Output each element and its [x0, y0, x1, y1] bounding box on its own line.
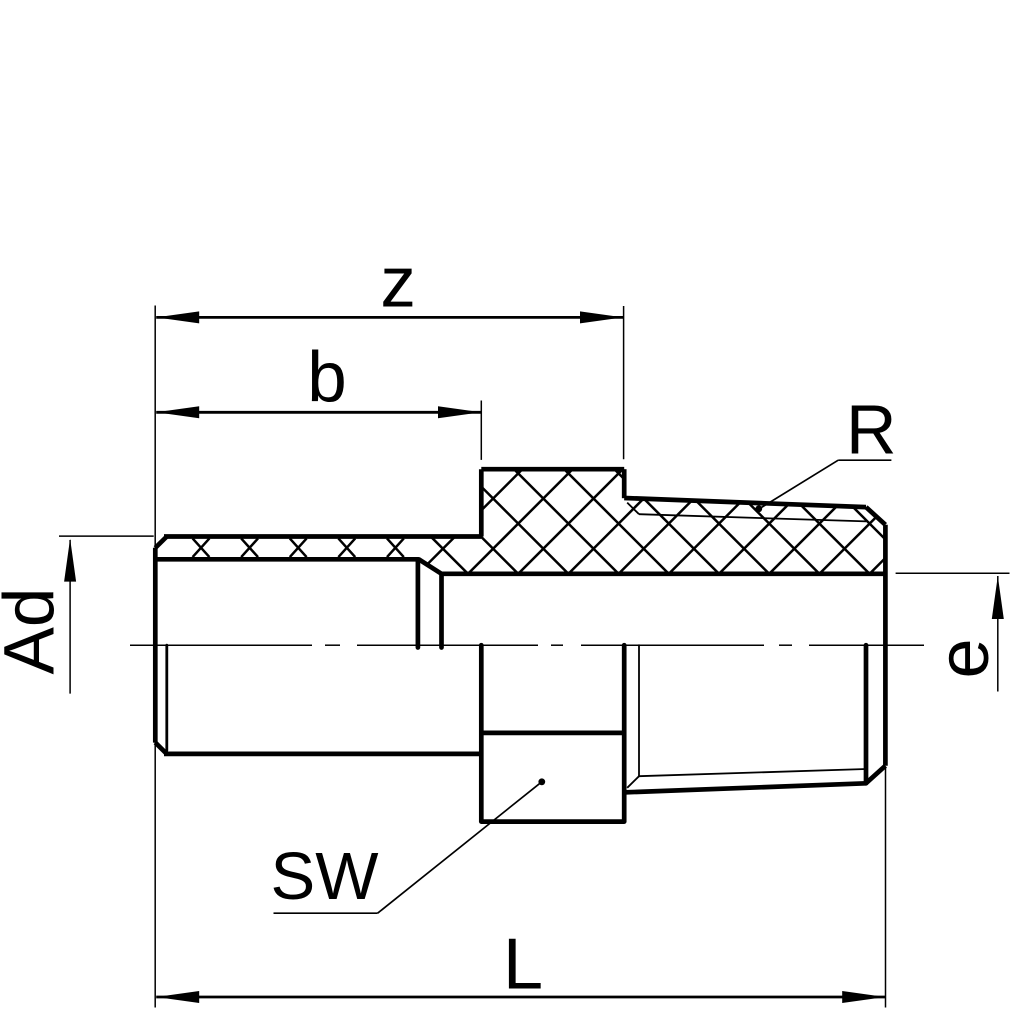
- thread start chamfer top: [627, 503, 639, 515]
- thread crest top: [624, 498, 866, 507]
- thread start edge bottom: [638, 645, 640, 776]
- chamfer edge line bottom: [165, 645, 168, 750]
- extension line L right: [885, 767, 887, 1008]
- R leader diagonal: [761, 460, 839, 508]
- left chamfer top: [155, 537, 167, 548]
- hatch lattice on body section: [271, 440, 1003, 620]
- bore face 2: [439, 574, 444, 648]
- hex top: [481, 467, 624, 472]
- thread root top: [639, 514, 866, 521]
- svg-text:R: R: [846, 390, 897, 468]
- hex left edge top: [479, 469, 484, 536]
- dimension line z: [156, 316, 623, 319]
- spigot bore line: [158, 557, 418, 562]
- arrow L right: [842, 991, 885, 1003]
- left chamfer bottom: [155, 743, 167, 754]
- extension line left lower: [154, 742, 156, 1008]
- end chamfer bottom: [866, 766, 885, 784]
- SW leader dot: [538, 778, 545, 785]
- bore step chamfer: [418, 559, 441, 574]
- svg-text:b: b: [307, 339, 347, 418]
- arrow z left: [156, 311, 199, 323]
- hex corner line: [481, 731, 624, 736]
- extension line z right: [623, 306, 625, 459]
- arrow z right: [580, 311, 623, 323]
- SW leader horizontal: [274, 912, 378, 914]
- left end face: [153, 548, 158, 743]
- hex left edge bottom: [479, 645, 484, 821]
- extension line left upper: [154, 306, 156, 549]
- arrow b right: [438, 406, 481, 418]
- e reference line: [896, 572, 1010, 574]
- centerline axis: [130, 644, 924, 646]
- svg-text:Ad: Ad: [0, 588, 70, 675]
- extension line b right: [480, 401, 482, 460]
- svg-text:e: e: [924, 638, 1004, 678]
- hatch crosses on spigot wall section: [193, 538, 404, 557]
- R leader dot: [755, 505, 762, 512]
- thread start chamfer bottom: [627, 776, 639, 788]
- SW leader diagonal: [378, 782, 542, 913]
- hex-taper step: [622, 469, 627, 498]
- Ad reference line: [59, 535, 154, 537]
- dimension line b: [156, 411, 481, 414]
- main bore line: [442, 571, 886, 576]
- svg-text:L: L: [503, 925, 543, 1005]
- R leader horizontal: [838, 459, 891, 461]
- arrow b left: [156, 406, 199, 418]
- hex right edge bottom: [622, 645, 627, 821]
- spigot outer bottom: [164, 752, 481, 757]
- spigot outer top: [164, 534, 481, 539]
- end chamfer top: [866, 507, 885, 525]
- dimension line L: [156, 996, 885, 999]
- svg-text:z: z: [380, 243, 416, 322]
- arrow Ad up: [64, 539, 76, 582]
- thread crest bottom: [624, 783, 866, 792]
- arrow L left: [156, 991, 199, 1003]
- Ad arrow shaft: [69, 540, 71, 694]
- e arrow shaft: [997, 576, 999, 692]
- right end face: [883, 525, 888, 766]
- thread end edge bottom: [864, 645, 869, 783]
- svg-text:SW: SW: [271, 839, 380, 914]
- thread root bottom: [639, 769, 866, 776]
- hex bottom: [481, 819, 624, 824]
- bore step face: [416, 559, 421, 647]
- arrow e up: [992, 576, 1004, 619]
